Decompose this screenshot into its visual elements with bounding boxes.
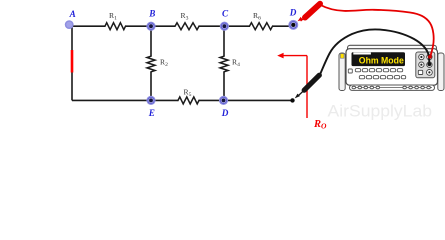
svg-text:D: D xyxy=(221,108,229,118)
svg-text:RO: RO xyxy=(313,119,327,131)
wire R3 to R6 through node C xyxy=(199,25,251,27)
svg-text:E: E xyxy=(148,108,155,118)
black plug in jack xyxy=(428,62,432,66)
jack bottom-right xyxy=(427,70,433,76)
right bracket xyxy=(438,53,444,91)
red highlight segment on left wire xyxy=(71,50,74,73)
resistor R2 xyxy=(147,56,155,72)
resistor R1 xyxy=(105,23,126,30)
jack mid-right xyxy=(427,62,432,67)
buttons row 2 xyxy=(359,76,405,79)
buttons row 1 xyxy=(355,69,402,72)
wire R5 to probe dot through node D xyxy=(199,99,293,101)
svg-text:D: D xyxy=(289,8,297,18)
node E xyxy=(146,96,155,105)
node D top xyxy=(288,20,298,30)
svg-text:A: A xyxy=(69,9,76,19)
wire R4 to bottom node D xyxy=(223,72,225,101)
junction dot at probe xyxy=(290,98,294,102)
display xyxy=(352,52,406,66)
wire bottom rail corner to R5 xyxy=(72,99,179,101)
wire left rail A down to bottom-left corner xyxy=(71,26,73,100)
red lead wire to meter xyxy=(320,5,434,57)
node D bottom xyxy=(219,96,228,105)
red plug in jack xyxy=(428,55,432,59)
node C xyxy=(220,22,229,31)
svg-text:AirSupplyLab: AirSupplyLab xyxy=(328,102,433,121)
bottom tray with feet xyxy=(350,85,435,90)
jack panel xyxy=(416,52,435,78)
wire top rail A to R1 xyxy=(72,25,106,27)
svg-text:B: B xyxy=(148,9,155,19)
top band xyxy=(348,45,437,51)
resistor R6 xyxy=(250,23,273,30)
black lead wire to meter xyxy=(320,29,429,74)
resistor R4 xyxy=(220,56,228,72)
wire node B down to R2 xyxy=(150,26,152,56)
wire R1 to R3 through node B xyxy=(125,25,176,27)
resistor R3 xyxy=(175,23,199,30)
meter body xyxy=(346,49,438,85)
node A xyxy=(65,20,74,29)
power button xyxy=(348,69,352,73)
jack top-left xyxy=(419,54,424,59)
svg-text:C: C xyxy=(222,9,229,19)
red probe at node D xyxy=(298,4,320,22)
resistor R5 xyxy=(178,97,199,104)
wire R2 to node E xyxy=(150,72,152,101)
left bracket xyxy=(339,53,345,91)
jack top-right xyxy=(427,54,432,59)
wire R6 to node D xyxy=(272,25,294,27)
jack mid-left xyxy=(419,62,424,67)
black probe at bottom node xyxy=(295,75,320,98)
node B xyxy=(146,22,155,31)
svg-text:Ohm Mode: Ohm Mode xyxy=(359,55,404,66)
multimeter xyxy=(339,45,444,90)
wire node C down to R4 xyxy=(223,26,225,56)
fuse square xyxy=(418,70,422,74)
annotation arrow R_O xyxy=(277,53,307,118)
